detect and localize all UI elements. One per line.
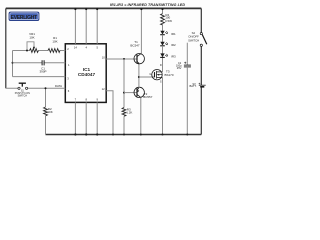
wire pin1 row — [13, 62, 66, 64]
EVERLIGHT logo badge — [9, 12, 39, 21]
transistor T2 BC557 — [134, 87, 153, 99]
capacitor C1 plates — [42, 60, 44, 65]
svg-text:S: S — [160, 79, 162, 83]
T2 collector wire — [140, 97, 142, 134]
R2 junction dot — [45, 87, 47, 89]
wire gate — [139, 76, 155, 78]
S1 contacts — [18, 87, 20, 89]
T1 emitter wire — [138, 64, 140, 77]
svg-text:12: 12 — [102, 87, 105, 91]
junction dots on bottom rail — [74, 133, 76, 135]
svg-text:CD4047: CD4047 — [78, 72, 96, 77]
switch S2 — [188, 31, 207, 46]
T2 emitter wire — [138, 77, 140, 88]
junction dots on top rail — [74, 8, 76, 10]
T3 source wire — [162, 78, 164, 135]
svg-text:10K: 10K — [52, 39, 57, 43]
transistor T1 BC547 — [130, 40, 144, 64]
capacitor C2 — [186, 43, 188, 65]
top supply rail — [6, 7, 202, 9]
wire pin2 row — [13, 50, 66, 52]
svg-text:BC547: BC547 — [130, 43, 140, 47]
LED IR1 — [160, 31, 176, 36]
resistor R2 — [45, 88, 47, 107]
node base junction — [123, 58, 125, 60]
LED IR2 — [160, 42, 176, 47]
wire base rail down — [123, 59, 125, 108]
svg-text:IR1: IR1 — [171, 32, 176, 36]
svg-text:25V: 25V — [177, 66, 182, 70]
svg-text:IC1: IC1 — [83, 67, 91, 72]
svg-text:BATT.: BATT. — [189, 84, 196, 88]
wire pin10 row to bases — [106, 58, 137, 60]
svg-text:D: D — [160, 63, 162, 67]
svg-text:1.2K: 1.2K — [126, 111, 132, 115]
svg-text:SWITCH: SWITCH — [188, 38, 199, 42]
node T2 base junction — [123, 92, 125, 94]
left RC rail — [12, 51, 14, 77]
wire pin12 stub — [106, 91, 113, 135]
resistor R1 zigzag — [48, 49, 60, 53]
C2 plus sign — [184, 62, 186, 64]
bottom ground rail — [46, 134, 202, 136]
svg-text:390P: 390P — [39, 69, 46, 73]
svg-text:EVERLIGHT: EVERLIGHT — [11, 15, 38, 21]
VR1 wiper arrowhead — [33, 47, 35, 50]
T1 collector wire — [140, 9, 142, 53]
IC top pin wires — [75, 9, 97, 44]
right rail upper (to S2) — [200, 8, 202, 32]
S1 plunger — [19, 83, 26, 86]
svg-text:0.5W: 0.5W — [165, 19, 172, 23]
svg-text:SWITCH: SWITCH — [18, 95, 28, 98]
battery BATT 9V — [189, 82, 205, 88]
VR1 junction dot — [26, 50, 28, 52]
mosfet T3 BS170 — [152, 63, 174, 83]
resistor R3 — [122, 108, 126, 117]
svg-text:G: G — [149, 72, 151, 76]
svg-text:BC557: BC557 — [143, 95, 153, 99]
IC bottom pin wires — [75, 102, 97, 134]
IC1 CD4047 body — [65, 44, 106, 103]
right rail mid (S2 to battery) — [200, 46, 202, 85]
svg-text:BS170: BS170 — [164, 73, 173, 77]
resistor R4 — [162, 9, 164, 14]
svg-text:DATA: DATA — [55, 84, 62, 88]
switch S1 wire row / DATA — [6, 87, 66, 89]
node dot C1 junction — [12, 62, 14, 64]
svg-text:10: 10 — [102, 55, 105, 59]
svg-text:14: 14 — [74, 45, 77, 49]
T3 drain wire — [162, 57, 164, 72]
VR1 wiper loop — [27, 42, 34, 51]
wire pin3 row — [13, 76, 66, 78]
node gate junction — [138, 76, 140, 78]
LED IR3 — [160, 53, 176, 58]
preset VR1 zigzag — [30, 49, 39, 53]
right rail lower (battery to ground) — [200, 87, 202, 135]
svg-text:IR2: IR2 — [171, 43, 176, 47]
svg-text:10K: 10K — [47, 110, 52, 114]
left border rail — [5, 8, 7, 88]
svg-text:IR3: IR3 — [171, 54, 176, 58]
wire T2 base — [124, 92, 137, 94]
svg-text:IR1-IR3 = INFRARED TRANSMITTIN: IR1-IR3 = INFRARED TRANSMITTING LED — [110, 3, 185, 7]
svg-text:10K: 10K — [29, 35, 34, 39]
